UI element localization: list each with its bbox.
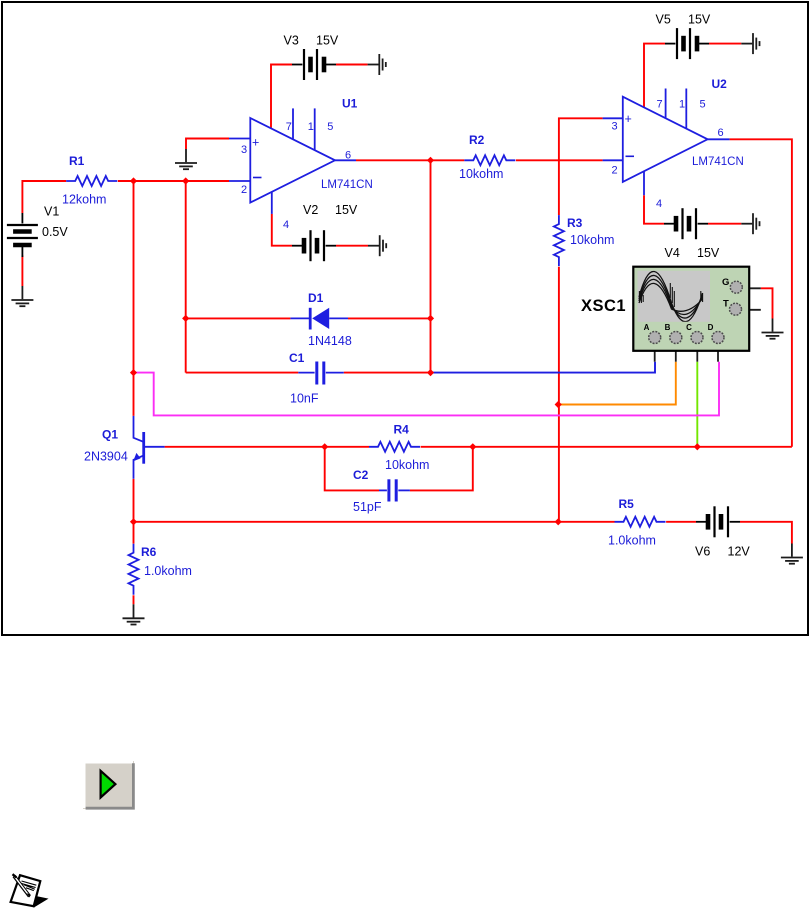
svg-text:D1: D1	[308, 291, 324, 305]
svg-text:15V: 15V	[697, 246, 720, 260]
svg-text:R4: R4	[394, 423, 410, 437]
svg-text:V4: V4	[665, 246, 680, 260]
svg-text:U1: U1	[342, 97, 358, 111]
svg-text:3: 3	[241, 144, 247, 156]
svg-text:7: 7	[657, 98, 663, 110]
svg-text:V5: V5	[656, 12, 671, 26]
svg-text:+: +	[252, 136, 259, 150]
svg-text:G: G	[722, 277, 729, 288]
svg-text:10kohm: 10kohm	[459, 167, 503, 181]
svg-text:LM741CN: LM741CN	[692, 156, 744, 168]
svg-text:R6: R6	[141, 545, 157, 559]
svg-text:4: 4	[283, 219, 289, 231]
svg-text:15V: 15V	[688, 12, 711, 26]
svg-text:T: T	[723, 299, 729, 310]
svg-text:12V: 12V	[728, 544, 751, 558]
svg-text:10kohm: 10kohm	[570, 233, 614, 247]
svg-text:1: 1	[308, 121, 314, 133]
svg-text:4: 4	[656, 198, 662, 210]
svg-text:51pF: 51pF	[353, 500, 382, 514]
svg-text:12kohm: 12kohm	[62, 192, 106, 206]
svg-text:10nF: 10nF	[290, 392, 319, 406]
svg-text:U2: U2	[712, 77, 728, 91]
svg-text:6: 6	[718, 127, 724, 139]
svg-text:R1: R1	[69, 154, 85, 168]
svg-text:Q1: Q1	[102, 428, 118, 442]
svg-text:7: 7	[286, 121, 292, 133]
svg-text:0.5V: 0.5V	[42, 225, 68, 239]
svg-text:B: B	[665, 323, 671, 332]
svg-text:C: C	[686, 323, 692, 332]
svg-text:1N4148: 1N4148	[308, 334, 352, 348]
svg-text:D: D	[708, 323, 714, 332]
svg-text:XSC1: XSC1	[581, 297, 626, 315]
svg-text:1.0kohm: 1.0kohm	[608, 534, 656, 548]
svg-text:2: 2	[241, 184, 247, 196]
svg-text:R5: R5	[619, 497, 635, 511]
svg-text:10kohm: 10kohm	[385, 458, 429, 472]
svg-text:15V: 15V	[316, 34, 339, 48]
svg-text:V3: V3	[284, 34, 299, 48]
svg-text:LM741CN: LM741CN	[321, 179, 373, 191]
svg-text:V1: V1	[44, 205, 59, 219]
svg-text:R2: R2	[469, 133, 485, 147]
svg-text:V6: V6	[695, 544, 710, 558]
svg-text:6: 6	[345, 149, 351, 161]
svg-text:C2: C2	[353, 468, 369, 482]
svg-text:5: 5	[700, 98, 706, 110]
svg-text:+: +	[625, 112, 632, 126]
svg-text:2N3904: 2N3904	[84, 450, 128, 464]
svg-text:1: 1	[679, 98, 685, 110]
svg-text:15V: 15V	[335, 203, 358, 217]
svg-text:V2: V2	[303, 203, 318, 217]
svg-text:C1: C1	[289, 351, 305, 365]
svg-text:5: 5	[327, 121, 333, 133]
svg-text:1.0kohm: 1.0kohm	[144, 564, 192, 578]
svg-text:R3: R3	[567, 216, 583, 230]
svg-text:2: 2	[612, 165, 618, 177]
svg-text:A: A	[644, 323, 650, 332]
svg-text:3: 3	[612, 120, 618, 132]
